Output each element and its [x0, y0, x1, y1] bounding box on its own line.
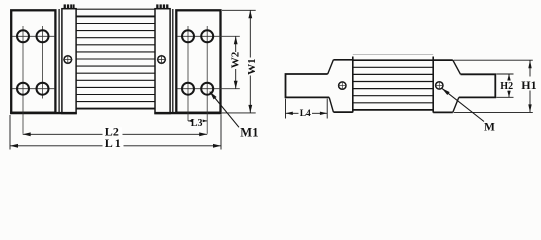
dim extension H1 top [454, 59, 533, 61]
sense screw hole right (weld block) [158, 56, 166, 64]
dim extension H2 bottom [496, 96, 513, 98]
left taper top [328, 60, 334, 74]
svg-text:W2: W2 [230, 51, 242, 68]
weld block left (narrow) [62, 9, 76, 114]
dim extension L4 left [285, 99, 287, 119]
dim extension H2 top [496, 73, 513, 75]
dimension L2 [23, 133, 103, 135]
svg-text:M: M [240, 125, 252, 139]
dim extension W1 bottom [222, 112, 256, 114]
dim extension L4 right [326, 99, 328, 119]
dimension W2 [235, 36, 237, 52]
dimension H2 [508, 74, 510, 78]
centerline rows right block (extend to W2 line) [178, 35, 240, 37]
weld block right (narrow) [155, 9, 170, 114]
dimension L4 [286, 112, 299, 114]
right taper bottom [453, 97, 459, 112]
bolt hole A1 [17, 30, 29, 42]
right lug [459, 74, 496, 97]
svg-text:H2: H2 [500, 81, 513, 92]
bolt hole B3 [182, 83, 194, 95]
wire: inner plate line right [172, 9, 174, 114]
svg-text:H1: H1 [521, 78, 536, 92]
left taper bottom [329, 97, 333, 112]
centerline rows left block [12, 35, 55, 37]
terminal block right (big) [176, 10, 220, 112]
dim extension W1 top [222, 9, 256, 11]
left block (side) [333, 59, 352, 61]
left lug [286, 74, 330, 97]
strips (side view) [353, 55, 433, 110]
dimension W1 [249, 10, 251, 57]
right taper top [453, 60, 461, 74]
centerline cols left block [22, 26, 24, 134]
sense hole right (side, M) [436, 82, 443, 89]
bolt hole A3 [17, 83, 29, 95]
svg-text:M: M [484, 121, 495, 133]
bolt hole A4 [37, 83, 49, 95]
bolt hole B2 [201, 30, 213, 42]
sense screw hole left (weld block) [64, 56, 72, 64]
dimension L1 [10, 145, 103, 147]
thick bottom edge left cluster [10, 112, 77, 114]
leader M [442, 88, 484, 121]
resistance strips (front view) [76, 9, 155, 108]
bolt hole B1 [182, 30, 194, 42]
wire: inner plate line left [58, 9, 60, 114]
svg-text:1: 1 [115, 136, 121, 150]
svg-text:L4: L4 [300, 109, 311, 119]
sense hole left (side) [339, 82, 346, 89]
svg-text:1: 1 [252, 125, 258, 139]
dim extension L1 right [220, 115, 222, 150]
bolt hole B4 (M1) [201, 83, 213, 95]
dim extension H1 bottom [454, 111, 533, 113]
leader M1 [210, 92, 239, 128]
thick bottom edge right cluster [154, 112, 221, 114]
strip ends (teeth) left [64, 4, 75, 9]
dimension L3 [188, 120, 191, 122]
right block (side) [433, 59, 453, 61]
bolt hole A2 [37, 30, 49, 42]
terminal block left (big) [11, 10, 55, 112]
centerline cols right block [187, 26, 189, 121]
svg-text:L: L [105, 136, 113, 150]
svg-text:L3: L3 [191, 118, 203, 129]
dim extension L1 left [9, 115, 11, 150]
strip ends (teeth) right [156, 4, 168, 9]
svg-text:W1: W1 [246, 58, 258, 75]
dimension H1 [529, 60, 531, 76]
